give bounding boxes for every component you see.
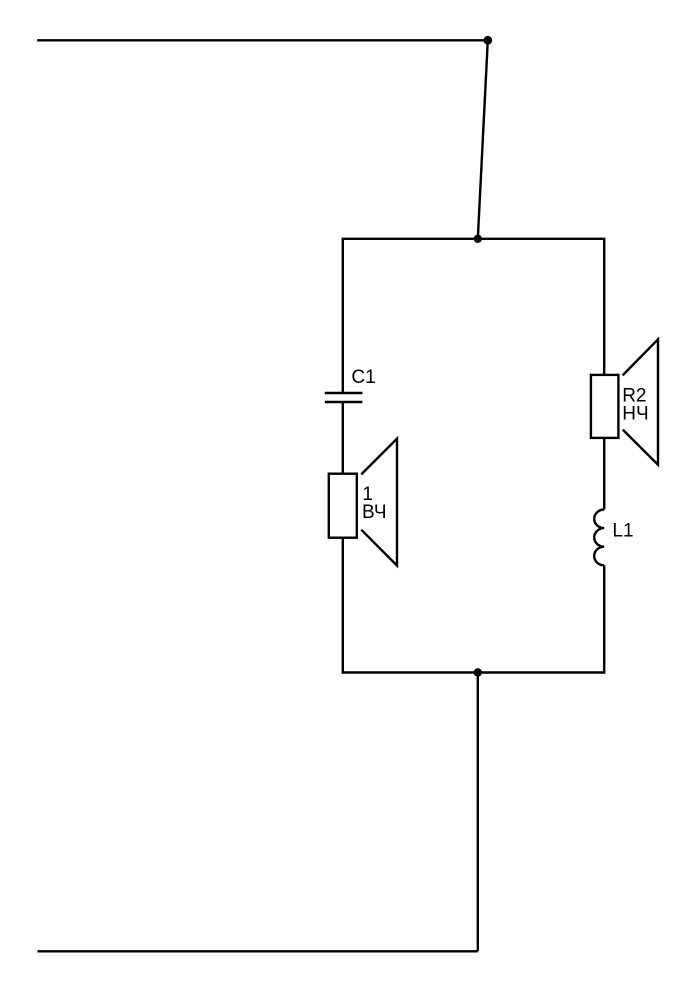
capacitor C1 xyxy=(325,393,363,402)
svg-text:C1: C1 xyxy=(351,367,375,388)
wire left branch middle (C1 to tweeter) xyxy=(342,402,344,474)
wire left branch upper (top edge to C1) xyxy=(342,239,344,393)
wire top input (left terminal to top node) xyxy=(37,39,488,41)
node junction at network top xyxy=(474,235,482,243)
inductor L1 xyxy=(594,510,604,566)
wire right branch middle (woofer to L1) xyxy=(603,438,605,510)
node junction at network bottom xyxy=(474,668,482,676)
wire right branch lower (L1 to bottom edge) xyxy=(603,565,605,672)
speaker 1 (tweeter ВЧ) rectangle xyxy=(329,474,357,538)
speaker R2 cone xyxy=(623,339,658,464)
wire bottom output (bottom node to left terminal) xyxy=(38,950,478,952)
wire right branch upper (top edge to woofer) xyxy=(603,239,605,375)
wire from bottom node down xyxy=(477,673,479,952)
svg-text:НЧ: НЧ xyxy=(622,403,648,424)
wire slanted drop from top node to crossover network xyxy=(478,40,488,239)
speaker R2 (woofer НЧ) rectangle xyxy=(591,375,619,438)
svg-text:ВЧ: ВЧ xyxy=(362,502,386,523)
svg-text:L1: L1 xyxy=(612,520,633,541)
node top junction xyxy=(483,36,492,45)
speaker 1 cone xyxy=(361,439,397,566)
wire top edge of loop xyxy=(343,238,604,240)
wire bottom edge of loop xyxy=(343,671,604,673)
wire left branch lower (tweeter to bottom edge) xyxy=(342,538,344,673)
